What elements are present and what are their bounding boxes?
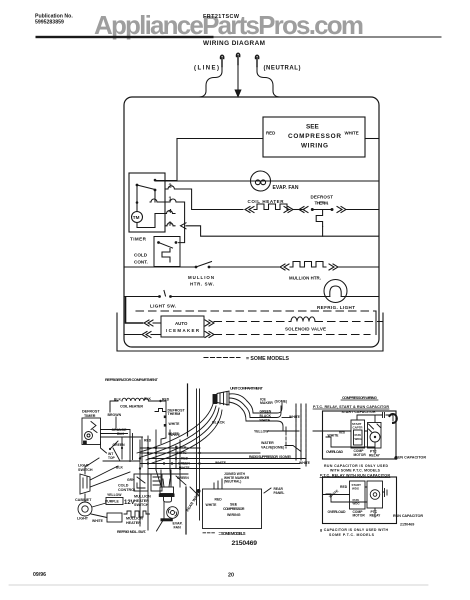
svg-text:(SOME): (SOME) bbox=[272, 446, 284, 450]
mullion heater row bbox=[124, 266, 196, 268]
svg-text:SOME P.T.C. MODELS: SOME P.T.C. MODELS bbox=[329, 533, 375, 537]
ground wire bbox=[237, 65, 239, 91]
compartment divider wall bbox=[187, 384, 189, 436]
svg-text:WIRING DIAGRAM: WIRING DIAGRAM bbox=[203, 40, 265, 47]
plug prong left bbox=[220, 55, 223, 66]
svg-text:CONT.: CONT. bbox=[134, 260, 148, 265]
svg-text:OVERLOAD: OVERLOAD bbox=[328, 510, 346, 514]
svg-text:BLACK: BLACK bbox=[175, 446, 187, 450]
svg-text:WHITE: WHITE bbox=[92, 519, 104, 523]
svg-text:BLACK: BLACK bbox=[212, 421, 225, 425]
svg-text:(NEUTRAL): (NEUTRAL) bbox=[264, 66, 301, 72]
svg-text:DEFROST: DEFROST bbox=[82, 410, 100, 414]
svg-text:WATER: WATER bbox=[261, 441, 274, 445]
svg-text:MOTOR: MOTOR bbox=[353, 514, 366, 518]
connector chevrons left of coil heater bbox=[245, 207, 254, 213]
svg-text:THERM: THERM bbox=[168, 412, 181, 416]
evap fan motor (pictorial) bbox=[163, 479, 170, 487]
svg-text:SEE: SEE bbox=[230, 503, 238, 507]
svg-text:AUTO: AUTO bbox=[175, 321, 188, 326]
svg-text:SWITCH: SWITCH bbox=[134, 503, 149, 507]
ground symbol bbox=[235, 90, 241, 97]
svg-text:RUN CAPACITOR: RUN CAPACITOR bbox=[395, 456, 426, 460]
run capacitor 1 bbox=[394, 456, 397, 459]
svg-text:(NEUTRAL): (NEUTRAL) bbox=[224, 480, 241, 484]
svg-text:TM: TM bbox=[133, 215, 140, 220]
svg-text:BLK: BLK bbox=[117, 432, 125, 436]
svg-text:REFRIG. LIGHT: REFRIG. LIGHT bbox=[317, 305, 355, 310]
svg-text:= SOME MODELS: = SOME MODELS bbox=[219, 531, 246, 536]
svg-text:WHITE: WHITE bbox=[176, 451, 187, 455]
svg-text:HEATER: HEATER bbox=[126, 521, 141, 525]
svg-text:THERM.: THERM. bbox=[315, 201, 329, 206]
svg-text:WHITE: WHITE bbox=[260, 418, 271, 422]
svg-text:WHITE: WHITE bbox=[206, 503, 218, 507]
icemaker feed wire bbox=[126, 297, 143, 323]
svg-text:RUN CAPACITOR: RUN CAPACITOR bbox=[393, 514, 423, 518]
terminal 4 hump wire bbox=[155, 211, 175, 214]
svg-text:MOTOR: MOTOR bbox=[354, 453, 367, 457]
rear wall divider bbox=[185, 487, 187, 534]
svg-text:RELAY: RELAY bbox=[370, 514, 382, 518]
svg-text:BLK: BLK bbox=[116, 466, 124, 470]
svg-text:GREEN: GREEN bbox=[178, 461, 190, 465]
svg-text:PURPLE: PURPLE bbox=[105, 500, 119, 504]
svg-text:5995283859: 5995283859 bbox=[35, 20, 64, 26]
refrigerator light bulb bbox=[324, 280, 347, 303]
mullion heater element bbox=[280, 264, 289, 270]
svg-text:RED: RED bbox=[181, 456, 189, 460]
coil heater row bbox=[195, 209, 244, 211]
header rule bbox=[36, 36, 214, 38]
svg-text:WHITE: WHITE bbox=[215, 461, 227, 465]
solenoid row dashed bbox=[214, 321, 290, 323]
some models legend bbox=[204, 357, 240, 359]
coil heater element bbox=[254, 204, 290, 210]
wire vertical red drop bbox=[176, 139, 178, 182]
svg-text:(SOME): (SOME) bbox=[275, 400, 288, 404]
compressor box bbox=[263, 117, 365, 157]
svg-text:WIRING: WIRING bbox=[227, 513, 241, 517]
svg-text:RELAY: RELAY bbox=[369, 453, 381, 457]
svg-text:CABINET: CABINET bbox=[75, 498, 92, 502]
svg-text:BROWN: BROWN bbox=[108, 413, 122, 417]
svg-text:WHITE: WHITE bbox=[289, 415, 301, 419]
svg-text:TOP: TOP bbox=[108, 456, 116, 460]
svg-text:BLACK: BLACK bbox=[260, 414, 272, 418]
svg-text:WHITE: WHITE bbox=[179, 466, 190, 470]
wire from line prong bbox=[199, 67, 222, 98]
svg-text:EVAP. FAN: EVAP. FAN bbox=[273, 185, 299, 191]
power cord plug bbox=[217, 391, 229, 405]
start relay block 2 bbox=[350, 481, 366, 509]
svg-text:TIMER: TIMER bbox=[130, 237, 147, 242]
svg-text:YELLOW: YELLOW bbox=[254, 430, 269, 434]
evap fan motor bbox=[251, 171, 271, 191]
auto icemaker box bbox=[161, 316, 204, 337]
defrost thermostat bbox=[299, 207, 308, 213]
svg-text:CAPTR: CAPTR bbox=[353, 426, 364, 430]
svg-text:MAKER: MAKER bbox=[260, 401, 273, 405]
wires box 2 bbox=[323, 487, 388, 517]
svg-text:PANEL: PANEL bbox=[274, 491, 285, 495]
svg-text:MULLION HTR.: MULLION HTR. bbox=[289, 276, 321, 281]
svg-text:RED: RED bbox=[339, 431, 345, 435]
icemaker return row bbox=[124, 334, 141, 336]
svg-text:OVERLOAD: OVERLOAD bbox=[326, 450, 343, 454]
svg-text:BLK: BLK bbox=[144, 397, 152, 401]
timer motor bbox=[132, 212, 143, 223]
chevrons right of coil heater bbox=[284, 207, 293, 213]
svg-text:WHITE: WHITE bbox=[168, 432, 180, 436]
svg-text:20: 20 bbox=[228, 573, 234, 579]
wire bundle unit side bbox=[137, 404, 222, 463]
svg-text:HTR. SW.: HTR. SW. bbox=[190, 282, 214, 287]
svg-text:COMPRESSOR: COMPRESSOR bbox=[223, 507, 245, 511]
light switch row bbox=[124, 296, 159, 298]
svg-text:WHITE: WHITE bbox=[328, 434, 340, 438]
svg-text:2150469: 2150469 bbox=[400, 523, 414, 527]
svg-text:LIGHT SW.: LIGHT SW. bbox=[150, 304, 176, 309]
svg-text:RED: RED bbox=[340, 485, 348, 489]
cold control bbox=[154, 237, 180, 267]
terminal 3 hump wire with connector arrow bbox=[165, 223, 175, 226]
svg-text:WHITE: WHITE bbox=[345, 131, 359, 136]
svg-text:g CAPACITOR IS ONLY USED WITH: g CAPACITOR IS ONLY USED WITH bbox=[320, 528, 388, 532]
svg-text:P.T.C. RELAY, START & RUN CAPA: P.T.C. RELAY, START & RUN CAPACITOR bbox=[313, 405, 389, 409]
svg-text:WIRING: WIRING bbox=[301, 143, 328, 150]
svg-text:START CAPACITOR: START CAPACITOR bbox=[342, 410, 376, 414]
svg-text:DEFROST: DEFROST bbox=[311, 195, 334, 200]
terminal 2 hump wire to heater row bbox=[165, 186, 195, 210]
see compressor wiring box (lower) bbox=[203, 489, 262, 529]
svg-text:= SOME MODELS: = SOME MODELS bbox=[246, 356, 290, 362]
svg-text:WHITE: WHITE bbox=[169, 422, 181, 426]
cold control (pictorial) bbox=[134, 474, 148, 491]
svg-text:RED: RED bbox=[215, 498, 223, 502]
svg-text:WDG: WDG bbox=[355, 437, 363, 441]
svg-text:SOLENOID VALVE: SOLENOID VALVE bbox=[285, 327, 326, 332]
wire coil heater to defrost therm bbox=[110, 401, 166, 444]
defrost thermostat (pictorial) bbox=[155, 409, 166, 412]
svg-text:COLD: COLD bbox=[134, 253, 148, 258]
svg-text:WITH SOME P.T.C. MODELS: WITH SOME P.T.C. MODELS bbox=[330, 469, 381, 473]
icemaker enclosure bbox=[117, 313, 383, 351]
svg-text:RED: RED bbox=[266, 131, 275, 136]
svg-text:2150469: 2150469 bbox=[232, 540, 258, 547]
svg-text:YELLOW: YELLOW bbox=[107, 493, 122, 497]
svg-text:UNIT COMPARTMENT: UNIT COMPARTMENT bbox=[230, 386, 264, 391]
mullion heater switch (pictorial) bbox=[151, 474, 162, 491]
lower some models legend bbox=[203, 532, 216, 534]
junction rows center bbox=[140, 448, 306, 474]
svg-text:FAN: FAN bbox=[174, 525, 182, 529]
ptc box 1 bbox=[323, 411, 397, 459]
timer box bbox=[129, 173, 165, 232]
wires box 1 bbox=[313, 415, 393, 454]
ptc relay block 1 bbox=[368, 423, 382, 449]
ptc relay block 2 bbox=[367, 481, 383, 508]
terminal 1 hump wire to cold control bbox=[150, 199, 185, 243]
svg-text:RUN CAPACITOR IS ONLY USED: RUN CAPACITOR IS ONLY USED bbox=[324, 464, 388, 468]
mullion heater (pictorial) bbox=[107, 513, 122, 522]
evap fan row wire bbox=[155, 180, 379, 182]
plug prong middle bbox=[236, 53, 239, 64]
svg-text:CONTROL: CONTROL bbox=[118, 488, 137, 492]
timer terminal numbers bbox=[169, 184, 173, 228]
header: publication number bbox=[35, 14, 73, 26]
svg-text:SEE: SEE bbox=[306, 124, 320, 131]
svg-text:MULLION: MULLION bbox=[188, 275, 214, 280]
svg-text:COMPRESSOR: COMPRESSOR bbox=[288, 133, 341, 140]
wire from neutral prong bbox=[257, 67, 280, 98]
svg-text:REFRIGERATOR COMPARTMENT: REFRIGERATOR COMPARTMENT bbox=[105, 377, 159, 382]
svg-text:LIGHT: LIGHT bbox=[77, 517, 89, 521]
svg-text:09/96: 09/96 bbox=[33, 572, 46, 578]
svg-text:12V: 12V bbox=[124, 500, 135, 506]
cabinet outline box bbox=[124, 97, 379, 347]
coil heater element (pictorial) bbox=[122, 398, 148, 401]
svg-text:COMPRESSOR WIRING: COMPRESSOR WIRING bbox=[342, 396, 377, 400]
solenoid valve coil bbox=[291, 317, 315, 322]
svg-text:WDG: WDG bbox=[352, 487, 360, 491]
svg-text:COIL HEATER: COIL HEATER bbox=[248, 199, 285, 204]
svg-text:WHITE: WHITE bbox=[299, 461, 311, 465]
svg-text:FRT21TSCW: FRT21TSCW bbox=[203, 14, 240, 20]
svg-text:TIMER: TIMER bbox=[84, 414, 96, 418]
timer contact dots and blade bbox=[154, 179, 157, 182]
svg-text:(LINE): (LINE) bbox=[194, 66, 219, 72]
wire red row bbox=[177, 138, 263, 140]
svg-text:REFRIG MDL. SWT.: REFRIG MDL. SWT. bbox=[117, 530, 146, 534]
svg-text:COIL HEATER: COIL HEATER bbox=[120, 405, 143, 409]
wire white row bbox=[365, 138, 379, 140]
wire bundle refrigerator side bbox=[101, 402, 143, 437]
svg-text:GREEN: GREEN bbox=[177, 476, 189, 480]
start relay block 1 bbox=[351, 420, 365, 448]
ptc box 2 bbox=[323, 477, 397, 524]
plug prong right bbox=[255, 55, 258, 66]
svg-text:COLD: COLD bbox=[118, 484, 129, 488]
